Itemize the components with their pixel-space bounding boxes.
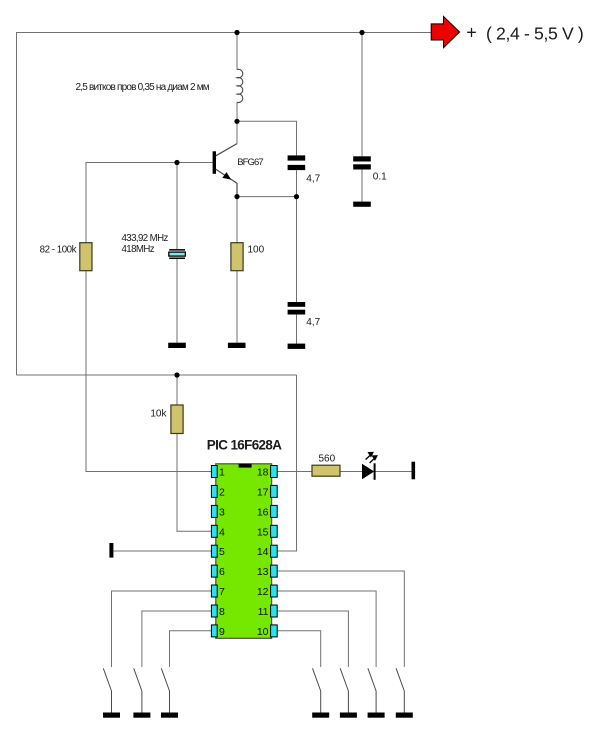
svg-text:1: 1 bbox=[219, 467, 225, 479]
wire emitter node to R100 bbox=[236, 197, 238, 243]
ground S5 bbox=[340, 713, 357, 718]
wire 0.1 cap to ground bbox=[361, 169, 363, 201]
resistor R4 560 bbox=[312, 465, 340, 476]
node 0.1 top bbox=[359, 30, 364, 35]
ground under C2 bbox=[353, 202, 371, 207]
node emitter-cap bbox=[294, 194, 299, 199]
switch S7 bbox=[396, 668, 404, 712]
svg-text:BFG67: BFG67 bbox=[237, 157, 263, 168]
pin 6 bbox=[211, 565, 217, 577]
wire pin7 to switch S1 bbox=[112, 591, 212, 667]
svg-text:16: 16 bbox=[257, 506, 269, 518]
wire collector node to cap C1 bbox=[237, 121, 297, 155]
svg-text:PIC 16F628A: PIC 16F628A bbox=[207, 437, 282, 452]
pin numbers right bbox=[257, 467, 269, 638]
terminal bar right (LED) bbox=[412, 462, 416, 480]
svg-text:433,92 MHz: 433,92 MHz bbox=[122, 233, 169, 244]
svg-text:560: 560 bbox=[319, 454, 336, 465]
svg-text:8: 8 bbox=[219, 606, 225, 618]
wire pin12 to switch S6 bbox=[278, 591, 377, 667]
wire R560 to LED bbox=[340, 471, 362, 473]
wire crystal top branch bbox=[176, 163, 178, 250]
svg-text:82 - 100k: 82 - 100k bbox=[40, 244, 77, 255]
wire LED to terminal bbox=[376, 471, 412, 473]
LED D1 bbox=[362, 452, 377, 479]
node coil top bbox=[234, 30, 239, 35]
resistor R2 100 bbox=[231, 243, 243, 271]
IC pins left bbox=[211, 466, 217, 637]
resistor R1 82-100k bbox=[80, 243, 92, 271]
pin 15 bbox=[271, 525, 278, 537]
svg-text:2: 2 bbox=[219, 486, 225, 498]
svg-text:100: 100 bbox=[248, 245, 265, 256]
svg-text:7: 7 bbox=[219, 586, 225, 598]
svg-text:10: 10 bbox=[257, 626, 269, 638]
svg-text:9: 9 bbox=[219, 626, 225, 638]
wire pin18 to R560 bbox=[278, 471, 313, 473]
svg-text:15: 15 bbox=[257, 526, 269, 538]
wire coil to collector node bbox=[236, 103, 238, 144]
pin 10 bbox=[271, 625, 278, 637]
svg-text:14: 14 bbox=[257, 546, 269, 558]
node 10k top bbox=[174, 372, 179, 377]
pin 5 bbox=[211, 545, 217, 557]
svg-text:3: 3 bbox=[219, 506, 225, 518]
svg-text:5: 5 bbox=[219, 546, 225, 558]
ground S7 bbox=[396, 713, 413, 718]
wire 10k branch bbox=[176, 375, 178, 405]
pin 2 bbox=[211, 485, 217, 497]
capacitor C3 4,7 bbox=[288, 302, 306, 315]
resistor R3 10k bbox=[171, 405, 183, 434]
pin 17 bbox=[271, 485, 278, 497]
svg-text:6: 6 bbox=[219, 566, 225, 578]
ground S1 bbox=[103, 713, 120, 718]
pin 12 bbox=[271, 585, 278, 597]
svg-text:4,7: 4,7 bbox=[306, 317, 320, 328]
switch S5 bbox=[340, 668, 348, 712]
ground S6 bbox=[368, 713, 385, 718]
wire bottom rail y=375 bbox=[17, 374, 297, 376]
switch S6 bbox=[368, 668, 376, 712]
switch S3 bbox=[161, 668, 169, 712]
inductor L1 bbox=[237, 69, 243, 102]
node base-crystal bbox=[174, 160, 179, 165]
wire pin5 stub bbox=[113, 550, 211, 552]
ground S3 bbox=[161, 713, 178, 718]
supply arrow bbox=[431, 16, 459, 47]
wire pin13 to switch S7 bbox=[278, 571, 405, 667]
IC U1 PIC16F628A body bbox=[216, 464, 272, 639]
wire pin8 to switch S2 bbox=[142, 611, 212, 667]
wire R100 to ground bbox=[236, 271, 238, 343]
switch S1 bbox=[103, 668, 111, 712]
switch S4 bbox=[313, 668, 321, 712]
svg-text:11: 11 bbox=[258, 606, 269, 618]
pin 18 bbox=[271, 466, 278, 478]
svg-text:418MHz: 418MHz bbox=[122, 244, 155, 255]
IC pins right bbox=[271, 466, 278, 637]
svg-text:13: 13 bbox=[257, 566, 269, 578]
wire pin10 to switch S4 bbox=[278, 631, 321, 667]
node emitter bbox=[234, 194, 239, 199]
svg-text:4,7: 4,7 bbox=[306, 174, 320, 185]
svg-text:12: 12 bbox=[257, 586, 269, 598]
svg-text:18: 18 bbox=[257, 467, 269, 479]
svg-text:17: 17 bbox=[257, 486, 269, 498]
ground under R100 bbox=[228, 343, 246, 348]
switch S2 bbox=[134, 668, 142, 712]
LED arrows bbox=[366, 452, 377, 463]
pin 11 bbox=[271, 605, 278, 617]
wire R82-100k to pin1 bbox=[86, 271, 211, 472]
IC notch bbox=[239, 464, 252, 468]
wire 0.1 cap branch bbox=[361, 33, 363, 157]
pin 7 bbox=[211, 585, 217, 597]
wire coil top feed bbox=[236, 33, 238, 70]
ground S4 bbox=[312, 713, 329, 718]
wire 10k to pin4 bbox=[177, 434, 211, 532]
wire cap C1 bottom to cap C2 bbox=[296, 170, 298, 302]
svg-text:0.1: 0.1 bbox=[373, 172, 387, 183]
pin 8 bbox=[211, 605, 217, 617]
pin 3 bbox=[211, 505, 217, 517]
pin 1 bbox=[211, 466, 217, 478]
svg-text:2,5 витков пров 0,35 на диам: 2,5 витков пров 0,35 на диам 2 мм bbox=[76, 82, 210, 93]
pin numbers left bbox=[219, 467, 225, 638]
capacitor C2 0.1 bbox=[353, 156, 371, 169]
svg-text:( 2,4 - 5,5 V ): ( 2,4 - 5,5 V ) bbox=[486, 24, 583, 44]
wire pin14 riser bbox=[278, 375, 297, 551]
junction dots bbox=[174, 30, 364, 378]
wire top rail bbox=[17, 33, 432, 376]
wire pin9 to switch S3 bbox=[170, 631, 212, 667]
ground under C3 bbox=[288, 344, 306, 349]
pin 14 bbox=[271, 545, 278, 557]
pin 9 bbox=[211, 625, 217, 637]
svg-text:10k: 10k bbox=[150, 409, 167, 420]
svg-text:+: + bbox=[466, 23, 477, 43]
node collector bbox=[234, 119, 239, 124]
wire base rail bbox=[86, 163, 213, 243]
svg-text:4: 4 bbox=[219, 526, 225, 538]
transistor Q1 BFG67 bbox=[213, 144, 237, 197]
pin 13 bbox=[271, 565, 278, 577]
terminal bar left (pin5) bbox=[109, 543, 113, 558]
pin 4 bbox=[211, 525, 217, 537]
wire crystal to ground bbox=[176, 259, 178, 343]
wire emitter node horizontal bbox=[237, 196, 297, 198]
ground S2 bbox=[133, 713, 150, 718]
ground under crystal bbox=[168, 343, 186, 348]
wire pin11 to switch S5 bbox=[278, 611, 349, 667]
crystal X1 bbox=[169, 249, 186, 259]
pin 16 bbox=[271, 505, 278, 517]
capacitor C1 4,7 bbox=[288, 155, 306, 170]
wire cap C2 to ground bbox=[296, 314, 298, 343]
